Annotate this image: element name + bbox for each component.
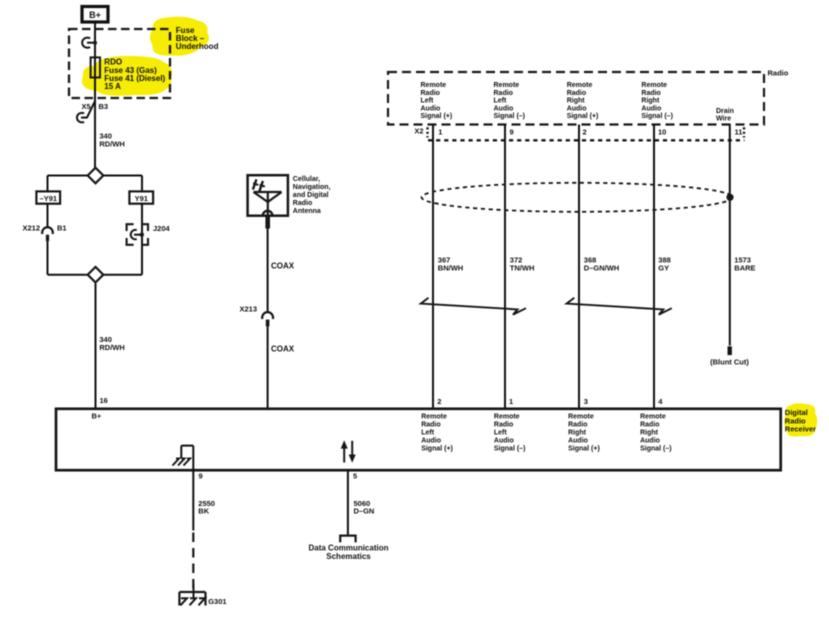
twisted pair marker (367/372) [421,298,526,315]
svg-text:9: 9 [199,471,203,480]
svg-text:Right: Right [568,430,587,437]
label: 340 RD/WH [99,335,124,352]
svg-text:Remote: Remote [421,82,447,89]
svg-text:Audio: Audio [494,106,514,113]
svg-text:Schematics: Schematics [326,552,371,561]
wire: right branch to J204 [141,204,143,275]
svg-text:Remote: Remote [567,82,593,89]
receiver label: Remote Radio Left Audio Signal (+) [421,414,453,453]
svg-text:Audio: Audio [494,438,514,445]
wire: top rail right [103,175,142,177]
wire 2550 BK (dashed) [192,533,194,590]
svg-text:Left: Left [421,430,435,437]
node B+ [82,7,108,23]
svg-text:Receiver: Receiver [785,424,816,433]
ground (chassis) inside receiver [173,446,194,466]
svg-text:1: 1 [509,397,513,406]
fuse block - underhood (dashed enclosure) [69,29,170,98]
svg-text:Audio: Audio [640,438,660,445]
connector X5 / B3 [77,101,108,122]
radio pin label: Remote Radio Left Audio Signal (-) [494,82,526,120]
radio pin label: Remote Radio Right Audio Signal (+) [567,82,599,120]
wire: right branch drop to Y91 [141,176,143,192]
svg-text:9: 9 [510,127,514,136]
svg-text:Right: Right [567,98,586,105]
label wire 388 [658,255,671,272]
radio pin label: Remote Radio Right Audio Signal (-) [641,82,673,120]
svg-text:(Blunt Cut): (Blunt Cut) [710,357,749,366]
svg-text:Right: Right [641,98,660,105]
svg-text:Radio: Radio [640,422,659,429]
svg-text:Radio: Radio [768,69,789,78]
svg-text:Remote: Remote [641,82,667,89]
svg-text:B+: B+ [89,10,101,20]
svg-text:B1: B1 [57,224,67,233]
svg-text:Signal (+): Signal (+) [567,113,599,120]
highlight: digital radio receiver label [784,403,817,436]
svg-text:COAX: COAX [271,345,295,354]
junction diamond (bottom) [88,267,104,283]
svg-text:Radio: Radio [641,90,660,97]
wire: receiver pin 9 lead [192,446,194,531]
svg-text:Radio: Radio [421,90,440,97]
junction dot (shield to drain) [726,194,733,201]
wire 1573 BARE (drain) [729,125,731,346]
label: 5060 D-GN [354,499,375,515]
svg-text:X213: X213 [240,305,258,314]
svg-text:Remote: Remote [568,414,594,421]
wire: bottom rail right [103,274,142,276]
shield (dashed ellipse) [422,183,733,212]
wire: left branch lower [47,241,49,274]
svg-text:B+: B+ [92,412,102,421]
svg-text:Radio: Radio [293,200,312,207]
svg-text:Signal (–): Signal (–) [494,113,526,120]
wire: receiver pin 5 lead (5060 D-GN) [347,469,349,535]
svg-text:Y91: Y91 [135,194,148,203]
svg-text:Audio: Audio [421,106,441,113]
wire: bottom rail left [48,274,88,276]
svg-text:Cellular,: Cellular, [293,176,320,183]
receiver label: Remote Radio Right Audio Signal (+) [568,414,600,453]
svg-text:X2: X2 [414,127,423,136]
svg-text:B3: B3 [99,102,109,111]
splice J204 [127,224,171,245]
svg-text:Signal (+): Signal (+) [568,446,600,453]
svg-text:Remote: Remote [494,414,520,421]
label: Digital Radio Receiver [785,408,816,433]
wire: top rail left [48,175,88,177]
svg-text:D–GN/WH: D–GN/WH [584,264,619,273]
receiver label: Remote Radio Left Audio Signal (-) [494,414,526,453]
svg-text:BK: BK [198,507,209,516]
antenna (Cellular, Navigation, and Digital Radio Antenna) [248,175,331,216]
wire 340 RD/WH (lower) [95,283,97,408]
svg-text:Signal (+): Signal (+) [421,446,453,453]
svg-text:Radio: Radio [568,422,587,429]
label: 2550 BK [198,499,215,515]
svg-text:16: 16 [100,396,108,405]
label: Fuse Block - Underhood [176,26,219,51]
svg-text:RD/WH: RD/WH [99,139,124,148]
svg-text:D–GN: D–GN [354,507,375,516]
svg-text:Signal (–): Signal (–) [641,113,673,120]
svg-text:J204: J204 [153,224,171,233]
radio pin label: Drain Wire [716,108,734,123]
blunt cut terminal [728,346,732,355]
fuse RDO [91,57,166,91]
svg-text:2: 2 [583,127,587,136]
data link arrows [341,440,356,463]
wire 372 TN/WH [504,125,506,409]
label wire 1573 [734,255,755,272]
connector X2 (dotted) [414,127,744,141]
svg-text:Wire: Wire [716,116,731,123]
svg-text:Left: Left [494,430,508,437]
svg-text:BN/WH: BN/WH [438,264,463,273]
svg-text:Signal (+): Signal (+) [421,113,453,120]
off-page connector (data communication) [340,536,355,543]
digital radio receiver (box) [56,409,781,470]
coax wire upper [267,229,269,312]
svg-text:Audio: Audio [567,106,587,113]
label wire 372 [510,255,535,272]
svg-text:GY: GY [658,264,669,273]
svg-text:Remote: Remote [640,414,666,421]
svg-text:RD/WH: RD/WH [99,343,124,352]
wire 340 RD/WH (upper) [94,101,96,168]
svg-text:X5: X5 [82,102,91,111]
highlight: fuse block label [150,17,209,56]
svg-text:Left: Left [494,98,508,105]
svg-text:–Y91: –Y91 [40,194,58,203]
svg-text:Navigation,: Navigation, [293,184,331,191]
junction diamond (top) [88,168,104,184]
svg-text:BARE: BARE [734,264,755,273]
svg-text:3: 3 [584,397,588,406]
radio (dashed enclosure) [388,72,764,125]
svg-text:Radio: Radio [421,422,440,429]
receiver label: Remote Radio Right Audio Signal (-) [640,414,672,453]
svg-text:1: 1 [438,127,442,136]
svg-text:G301: G301 [208,597,226,606]
svg-text:11: 11 [735,127,743,136]
coax wire lower [267,326,269,408]
svg-text:Signal (–): Signal (–) [494,446,526,453]
wire: left branch to X212 [47,204,49,227]
svg-text:5: 5 [353,471,357,480]
highlight: RDO fuse label [82,56,172,96]
svg-text:Radio: Radio [494,422,513,429]
svg-text:TN/WH: TN/WH [510,264,535,273]
svg-text:X212: X212 [23,224,41,233]
svg-text:Radio: Radio [567,90,586,97]
wire 367 BN/WH [432,125,434,409]
connector X212 terminal B1 [23,224,67,242]
connector X213 [240,305,274,327]
svg-text:Drain: Drain [716,108,734,115]
wire 368 D-GN/WH [578,125,580,409]
wire 388 GY [653,125,655,409]
svg-text:Signal (–): Signal (–) [640,446,672,453]
twisted pair marker (368/388) [567,298,672,315]
svg-text:and Digital: and Digital [293,192,329,199]
svg-text:Left: Left [421,98,435,105]
svg-text:10: 10 [658,127,666,136]
svg-text:Right: Right [640,430,659,437]
label wire 367 [438,255,463,272]
svg-text:COAX: COAX [271,261,295,270]
svg-text:Audio: Audio [421,438,441,445]
label wire 368 [584,255,619,272]
coax stub below antenna [265,216,270,229]
component Y91 [129,191,153,203]
svg-text:Remote: Remote [421,414,447,421]
svg-text:15 A: 15 A [104,82,121,91]
label: 340 RD/WH [99,132,124,149]
svg-text:Underhood: Underhood [176,42,219,51]
svg-text:Remote: Remote [494,82,520,89]
component -Y91 [36,191,60,203]
wire B+ to fuse [94,22,96,101]
svg-text:Radio: Radio [494,90,513,97]
radio pin label: Remote Radio Left Audio Signal (+) [421,82,453,120]
svg-text:Audio: Audio [641,106,661,113]
svg-text:2: 2 [437,397,441,406]
svg-text:Audio: Audio [568,438,588,445]
svg-text:Antenna: Antenna [293,208,321,215]
connector terminal (fuse block input) [82,38,97,48]
ground G301 [179,584,226,606]
wire: left branch drop to -Y91 [47,176,49,192]
